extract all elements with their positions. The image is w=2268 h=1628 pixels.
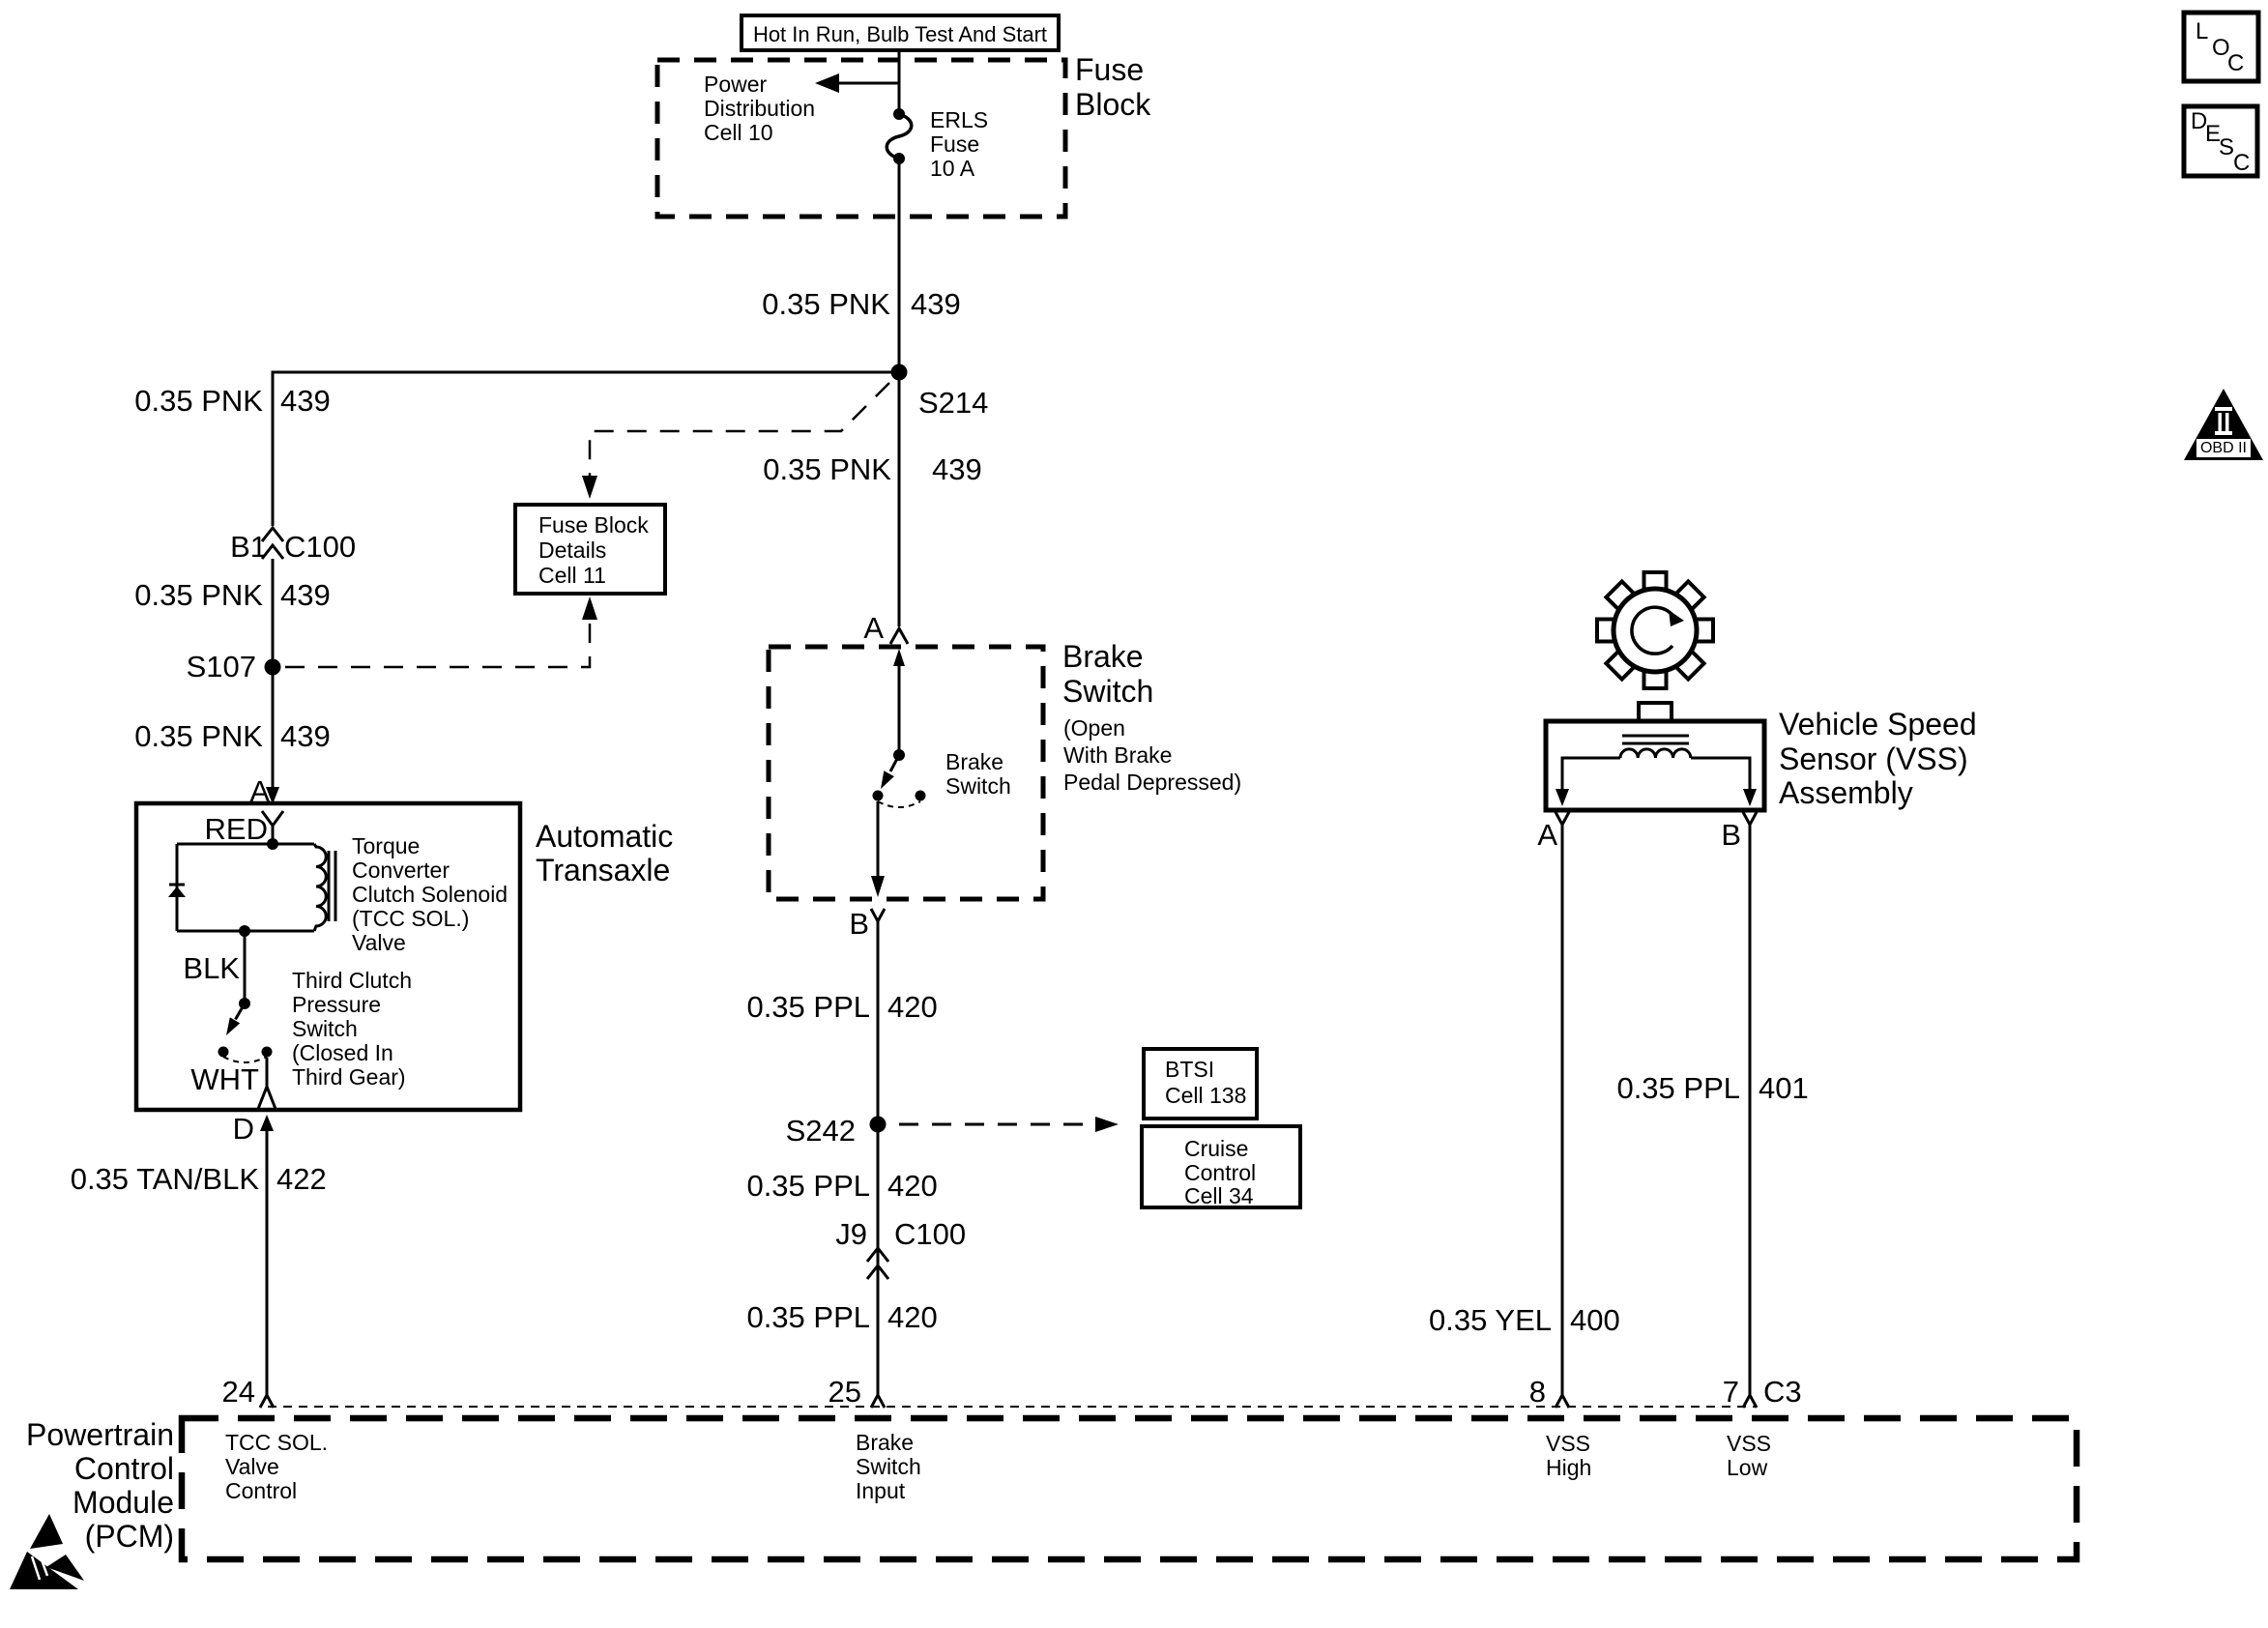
power label box: Hot In Run, Bulb Test And Start <box>741 15 1059 50</box>
svg-text:BLK: BLK <box>183 951 240 985</box>
svg-text:0.35 PPL: 0.35 PPL <box>746 1169 870 1203</box>
svg-text:422: 422 <box>276 1162 327 1196</box>
svg-text:10 A: 10 A <box>930 156 975 181</box>
switch: third clutch pressure switch <box>218 998 273 1062</box>
svg-text:Switch: Switch <box>856 1454 921 1479</box>
svg-text:B1: B1 <box>230 530 267 564</box>
svg-text:Valve: Valve <box>352 930 406 955</box>
svg-text:0.35 PNK: 0.35 PNK <box>763 452 891 486</box>
svg-text:Block: Block <box>1075 87 1151 122</box>
svg-text:420: 420 <box>887 990 938 1024</box>
icon: LOC box <box>2184 13 2258 81</box>
pin A female connector below VSS <box>1537 812 1569 1395</box>
svg-text:TCC SOL.: TCC SOL. <box>225 1430 328 1455</box>
pin label RED + female connector <box>205 811 283 846</box>
svg-text:Hot In Run, Bulb Test And Star: Hot In Run, Bulb Test And Start <box>753 22 1047 46</box>
svg-text:0.35 YEL: 0.35 YEL <box>1429 1303 1552 1337</box>
svg-text:0.35 PNK: 0.35 PNK <box>134 384 263 418</box>
reference box: Cruise Control Cell 34 <box>1142 1126 1300 1208</box>
svg-text:D: D <box>233 1112 254 1146</box>
icon: OBD II triangle <box>2184 389 2263 460</box>
junction S107 <box>265 659 281 676</box>
component box: Vehicle Speed Sensor (VSS) Assembly <box>1546 721 1764 810</box>
junction S242 <box>870 1117 887 1133</box>
svg-text:0.35 PNK: 0.35 PNK <box>134 578 263 612</box>
wire: to pressure switch <box>244 931 247 1003</box>
wire: solenoid loop bottom <box>177 930 314 933</box>
svg-text:Powertrain: Powertrain <box>26 1417 174 1452</box>
VSS pickup coil winding <box>1620 749 1691 758</box>
svg-text:High: High <box>1546 1455 1591 1480</box>
svg-text:Switch: Switch <box>1062 674 1153 709</box>
svg-text:Cell 138: Cell 138 <box>1165 1083 1246 1108</box>
pin B female connector below brake switch <box>849 907 885 1395</box>
svg-text:Distribution: Distribution <box>704 96 815 121</box>
svg-text:VSS: VSS <box>1546 1431 1590 1456</box>
node: solenoid bottom junction <box>239 925 250 937</box>
svg-text:S107: S107 <box>187 650 256 683</box>
svg-text:Fuse: Fuse <box>930 131 979 157</box>
svg-text:C100: C100 <box>894 1217 966 1251</box>
VSS pickup coil core <box>1622 735 1689 738</box>
PCM pin 25 female connector <box>829 1375 885 1409</box>
svg-text:Input: Input <box>856 1478 906 1503</box>
pin D male arrow below transaxle <box>233 1112 274 1395</box>
junction S214 <box>891 364 908 381</box>
svg-text:L: L <box>2195 18 2208 44</box>
svg-text:Brake: Brake <box>856 1430 914 1455</box>
diode D1 (clamp) <box>168 885 186 897</box>
svg-text:S: S <box>2219 134 2234 160</box>
svg-text:Pedal Depressed): Pedal Depressed) <box>1063 770 1241 795</box>
svg-text:C100: C100 <box>284 530 356 564</box>
svg-text:OBD II: OBD II <box>2200 440 2247 456</box>
svg-text:25: 25 <box>829 1375 861 1409</box>
svg-text:Third Clutch: Third Clutch <box>292 968 412 993</box>
svg-text:Pressure: Pressure <box>292 992 381 1017</box>
svg-text:0.35 PNK: 0.35 PNK <box>762 287 890 321</box>
svg-text:Control: Control <box>1184 1160 1256 1185</box>
svg-text:0.35 PNK: 0.35 PNK <box>134 719 263 753</box>
brake switch internals <box>871 649 926 897</box>
svg-text:(Open: (Open <box>1063 715 1125 741</box>
wire: feed from Hot In Run label into fuse block <box>898 50 901 114</box>
svg-text:Switch: Switch <box>292 1016 358 1041</box>
svg-text:Third Gear): Third Gear) <box>292 1064 406 1090</box>
svg-text:Module: Module <box>73 1485 174 1520</box>
connector B1 C100 (double chevron) <box>230 528 356 564</box>
svg-text:C: C <box>2233 150 2250 176</box>
svg-text:Converter: Converter <box>352 858 450 883</box>
svg-text:0.35 PPL: 0.35 PPL <box>1616 1071 1740 1105</box>
PCM pin 8 female connector <box>1529 1375 1569 1409</box>
svg-text:439: 439 <box>932 452 982 486</box>
svg-text:Cell 11: Cell 11 <box>538 563 606 588</box>
svg-text:Cruise: Cruise <box>1184 1136 1248 1161</box>
svg-text:Valve: Valve <box>225 1454 279 1479</box>
svg-text:420: 420 <box>887 1169 938 1203</box>
svg-text:(Closed In: (Closed In <box>292 1040 393 1065</box>
svg-text:Vehicle Speed: Vehicle Speed <box>1779 707 1977 741</box>
svg-text:Assembly: Assembly <box>1779 775 1913 810</box>
svg-text:A: A <box>1537 818 1557 852</box>
svg-text:Cell 34: Cell 34 <box>1184 1183 1254 1208</box>
pin A arrow into Automatic Transaxle <box>249 774 279 808</box>
svg-text:BTSI: BTSI <box>1165 1057 1214 1082</box>
PCM connector face dashed line <box>268 1406 1755 1408</box>
svg-text:439: 439 <box>280 719 331 753</box>
ESD sensitivity symbol <box>10 1514 84 1589</box>
svg-text:Brake: Brake <box>1062 639 1144 674</box>
wire: solenoid loop top <box>177 843 314 846</box>
wire: coil left lead <box>1562 758 1620 790</box>
svg-text:J9: J9 <box>835 1217 867 1251</box>
svg-text:Control: Control <box>225 1478 297 1503</box>
reference box: BTSI Cell 138 <box>1144 1049 1257 1119</box>
wire: 0.35 PNK 439 from fuse to S214 <box>898 159 901 372</box>
svg-text:Torque: Torque <box>352 833 420 858</box>
svg-text:S242: S242 <box>786 1114 856 1148</box>
svg-text:401: 401 <box>1759 1071 1809 1105</box>
dashed link: S107 to Fuse Block Details <box>285 596 597 667</box>
PCM pin 24 female connector <box>222 1375 274 1409</box>
svg-text:0.35 PPL: 0.35 PPL <box>746 1300 870 1334</box>
svg-text:0.35 PPL: 0.35 PPL <box>746 990 870 1024</box>
svg-text:B: B <box>1721 818 1741 852</box>
fuse ERLS 10 A <box>887 108 912 164</box>
pin label WHT + female connector (D inside) <box>190 1058 276 1109</box>
reference box: Fuse Block Details Cell 11 <box>515 505 665 594</box>
VSS sensor stem <box>1639 703 1672 721</box>
svg-text:B: B <box>849 907 869 941</box>
svg-text:439: 439 <box>911 287 961 321</box>
dashed link: S242 to BTSI / Cruise <box>899 1117 1119 1132</box>
svg-text:(TCC SOL.): (TCC SOL.) <box>352 906 469 931</box>
svg-text:Fuse: Fuse <box>1075 52 1144 87</box>
svg-text:RED: RED <box>205 812 268 846</box>
svg-text:A: A <box>863 611 884 645</box>
svg-text:439: 439 <box>280 384 331 418</box>
coil core lines <box>328 851 331 921</box>
component box: Powertrain Control Module (PCM) dashed <box>182 1418 2077 1559</box>
svg-text:7: 7 <box>1723 1375 1739 1409</box>
svg-text:(PCM): (PCM) <box>85 1519 174 1554</box>
connector J9 C100 (double chevron) <box>835 1217 966 1279</box>
dashed link: S214 to Fuse Block Details <box>582 383 889 499</box>
svg-text:0.35 TAN/BLK: 0.35 TAN/BLK <box>71 1162 260 1196</box>
pin B female connector below VSS <box>1721 812 1757 1395</box>
node: solenoid top junction <box>267 838 278 850</box>
component box: Automatic Transaxle <box>136 803 520 1110</box>
svg-text:C: C <box>2227 50 2244 76</box>
pin A male chevron into brake switch <box>863 372 908 645</box>
svg-text:C3: C3 <box>1763 1375 1802 1409</box>
svg-text:Switch: Switch <box>945 773 1011 799</box>
svg-text:Fuse Block: Fuse Block <box>538 512 649 538</box>
svg-text:439: 439 <box>280 578 331 612</box>
wire: solenoid loop left <box>176 844 179 931</box>
svg-text:ERLS: ERLS <box>930 107 988 132</box>
svg-text:8: 8 <box>1529 1375 1546 1409</box>
svg-text:Details: Details <box>538 538 606 563</box>
svg-text:420: 420 <box>887 1300 938 1334</box>
svg-text:Automatic: Automatic <box>536 819 673 854</box>
coil: TCC solenoid winding <box>314 844 326 931</box>
svg-text:WHT: WHT <box>190 1062 259 1096</box>
brake switch dashed box <box>769 647 1043 899</box>
svg-text:Clutch Solenoid: Clutch Solenoid <box>352 882 508 907</box>
icon: DESC box <box>2184 106 2257 176</box>
svg-text:Power: Power <box>704 72 768 97</box>
svg-text:S214: S214 <box>918 386 988 420</box>
svg-text:400: 400 <box>1570 1303 1620 1337</box>
svg-text:VSS: VSS <box>1727 1431 1771 1456</box>
PCM pin 7 female connector + C3 <box>1723 1375 1802 1409</box>
svg-text:Sensor (VSS): Sensor (VSS) <box>1779 741 1968 776</box>
svg-text:Control: Control <box>74 1451 174 1486</box>
wire: 0.35 PNK 439 branch left from S214 <box>273 372 899 526</box>
svg-text:24: 24 <box>222 1375 255 1409</box>
wire: branch arrow to Power Distribution Cell 10 <box>815 73 899 93</box>
svg-text:With Brake: With Brake <box>1063 742 1172 768</box>
svg-text:Low: Low <box>1727 1455 1768 1480</box>
VSS tone wheel gear <box>1597 572 1713 688</box>
fuse block dashed box <box>657 60 1065 217</box>
wire: 0.35 PNK 439 from C100 to S107 to transaxle <box>272 559 275 791</box>
svg-text:Cell 10: Cell 10 <box>704 120 773 145</box>
wire: coil right lead <box>1691 758 1750 790</box>
svg-text:Brake: Brake <box>945 749 1003 774</box>
svg-text:Transaxle: Transaxle <box>536 853 670 887</box>
